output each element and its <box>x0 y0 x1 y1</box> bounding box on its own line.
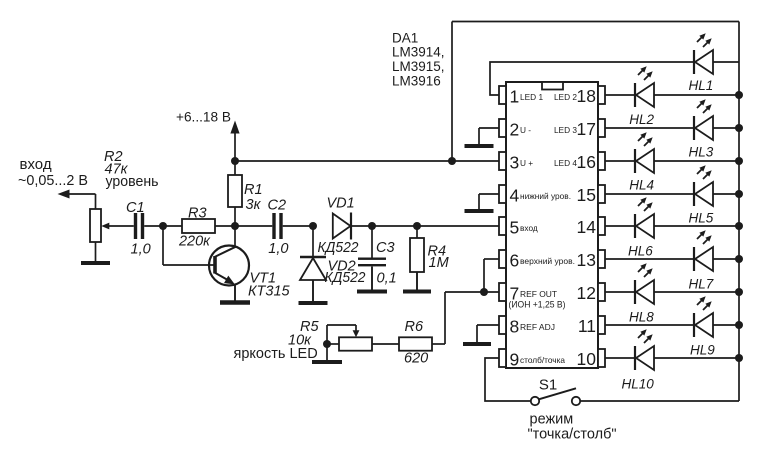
svg-text:яркость LED: яркость LED <box>234 346 318 362</box>
svg-text:9: 9 <box>510 350 520 370</box>
svg-text:U +: U + <box>520 158 533 168</box>
svg-text:C2: C2 <box>268 198 287 214</box>
svg-text:2: 2 <box>510 120 520 140</box>
svg-text:8: 8 <box>510 317 520 337</box>
svg-text:КТ315: КТ315 <box>248 284 291 300</box>
svg-text:верхний уров.: верхний уров. <box>520 256 575 266</box>
svg-text:+6...18 В: +6...18 В <box>176 109 231 125</box>
svg-text:5: 5 <box>510 218 520 238</box>
svg-text:нижний уров.: нижний уров. <box>520 191 571 201</box>
svg-text:10: 10 <box>577 349 597 369</box>
svg-text:3к: 3к <box>246 197 262 213</box>
svg-text:U -: U - <box>520 125 531 135</box>
svg-text:HL8: HL8 <box>629 310 654 325</box>
svg-text:16: 16 <box>577 152 596 172</box>
svg-text:220к: 220к <box>178 234 211 250</box>
svg-text:вход: вход <box>520 223 538 233</box>
svg-text:HL10: HL10 <box>622 377 655 392</box>
svg-text:15: 15 <box>577 185 596 205</box>
svg-text:1M: 1M <box>429 255 450 271</box>
svg-text:столб/точка: столб/точка <box>520 355 565 365</box>
svg-text:11: 11 <box>578 316 596 336</box>
svg-text:вход: вход <box>20 156 52 173</box>
svg-text:HL4: HL4 <box>629 178 654 193</box>
svg-text:REF OUT: REF OUT <box>520 289 557 299</box>
svg-text:(ИОН +1,25 В): (ИОН +1,25 В) <box>509 300 566 310</box>
svg-text:R3: R3 <box>188 206 207 222</box>
svg-text:VD1: VD1 <box>327 196 355 212</box>
svg-text:~0,05...2 В: ~0,05...2 В <box>18 172 88 189</box>
svg-text:КД522: КД522 <box>325 270 366 286</box>
svg-text:4: 4 <box>510 186 520 206</box>
svg-text:DA1: DA1 <box>392 31 418 46</box>
svg-text:LED 1: LED 1 <box>520 92 543 102</box>
svg-text:S1: S1 <box>539 377 557 394</box>
svg-text:C3: C3 <box>376 240 395 256</box>
svg-text:13: 13 <box>577 250 596 270</box>
svg-text:LED 4: LED 4 <box>554 158 577 168</box>
svg-text:LED 3: LED 3 <box>554 125 577 135</box>
svg-text:LM3916: LM3916 <box>392 74 441 89</box>
svg-text:LM3914,: LM3914, <box>392 45 445 60</box>
svg-text:"точка/столб": "точка/столб" <box>528 427 617 443</box>
svg-text:КД522: КД522 <box>318 240 359 256</box>
svg-text:18: 18 <box>577 86 596 106</box>
svg-text:R1: R1 <box>244 182 263 198</box>
svg-text:LED 2: LED 2 <box>554 92 577 102</box>
svg-text:12: 12 <box>577 283 596 303</box>
svg-text:HL3: HL3 <box>689 145 714 160</box>
svg-text:1: 1 <box>510 87 520 107</box>
svg-text:режим: режим <box>530 412 574 428</box>
svg-text:HL9: HL9 <box>690 343 715 358</box>
svg-text:1,0: 1,0 <box>131 242 151 258</box>
svg-text:HL6: HL6 <box>628 244 653 259</box>
svg-text:REF ADJ: REF ADJ <box>520 322 555 332</box>
svg-text:R6: R6 <box>405 319 424 335</box>
svg-text:6: 6 <box>510 251 520 271</box>
svg-text:1,0: 1,0 <box>268 241 288 257</box>
svg-text:620: 620 <box>404 351 428 367</box>
svg-text:0,1: 0,1 <box>377 271 397 287</box>
svg-text:HL7: HL7 <box>689 277 714 292</box>
svg-text:C1: C1 <box>126 200 145 216</box>
svg-text:14: 14 <box>577 217 597 237</box>
svg-text:3: 3 <box>510 153 520 173</box>
svg-text:17: 17 <box>577 119 596 139</box>
svg-text:HL2: HL2 <box>629 112 654 127</box>
svg-text:HL1: HL1 <box>689 78 714 93</box>
svg-text:уровень: уровень <box>106 174 159 190</box>
svg-text:HL5: HL5 <box>689 211 714 226</box>
svg-text:LM3915,: LM3915, <box>392 59 445 74</box>
